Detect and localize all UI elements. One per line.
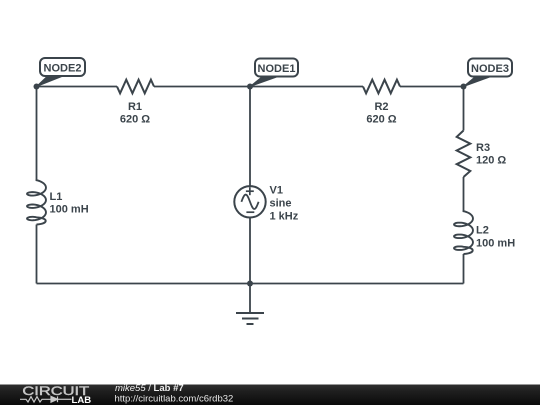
ground — [236, 284, 264, 325]
svg-text:LAB: LAB — [72, 395, 92, 405]
svg-text:120 Ω: 120 Ω — [476, 155, 506, 167]
svg-text:100 mH: 100 mH — [476, 238, 515, 250]
node junction dot NODE1 — [247, 84, 253, 90]
wire left upper segment — [36, 87, 38, 180]
node label NODE1 — [250, 59, 298, 87]
voltage source V1 — [234, 186, 265, 217]
resistor R3 — [457, 131, 471, 178]
svg-text:L1: L1 — [50, 191, 63, 203]
wire top segment R1 to NODE1 — [154, 86, 363, 88]
wire right middle segment — [463, 177, 465, 210]
inductor L2 — [454, 210, 473, 254]
resistor R2 — [363, 80, 400, 94]
wire middle lower segment — [249, 218, 251, 284]
wire bottom segment — [37, 283, 464, 285]
resistor R1 — [117, 80, 154, 94]
CircuitLab logo schematic line with resistor and diode — [20, 396, 72, 402]
svg-text:100 mH: 100 mH — [50, 204, 89, 216]
wire middle upper segment — [249, 87, 251, 187]
svg-text:NODE1: NODE1 — [258, 63, 296, 75]
svg-text:1 kHz: 1 kHz — [270, 211, 299, 223]
svg-text:R1: R1 — [128, 101, 142, 113]
node junction dot NODE3 — [461, 84, 467, 90]
svg-text:http://circuitlab.com/c6rdb32: http://circuitlab.com/c6rdb32 — [115, 393, 234, 404]
svg-text:620 Ω: 620 Ω — [366, 114, 396, 126]
svg-text:R2: R2 — [374, 101, 388, 113]
node junction dot NODE2 — [34, 84, 40, 90]
svg-text:NODE3: NODE3 — [471, 63, 509, 75]
svg-text:sine: sine — [270, 198, 292, 210]
wire left lower segment — [36, 225, 38, 284]
wire top segment NODE2 to R1 — [37, 86, 118, 88]
svg-text:NODE2: NODE2 — [44, 63, 82, 75]
svg-text:620 Ω: 620 Ω — [120, 114, 150, 126]
node junction dot ground — [247, 281, 253, 287]
svg-text:L2: L2 — [476, 225, 489, 237]
wire right upper segment — [463, 87, 465, 131]
inductor L1 — [27, 179, 46, 225]
svg-text:R3: R3 — [476, 142, 490, 154]
node label NODE3 — [464, 59, 513, 87]
svg-text:V1: V1 — [270, 185, 283, 197]
wire top segment R2 to NODE3 — [400, 86, 464, 88]
wire right lower segment — [463, 254, 465, 284]
node label NODE2 — [37, 58, 86, 87]
